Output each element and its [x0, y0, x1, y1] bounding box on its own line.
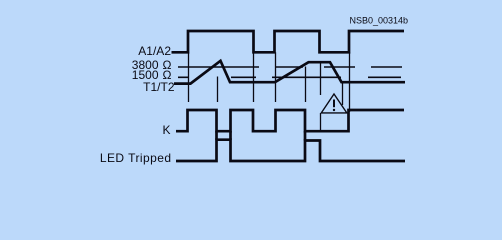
marker at x217 (1500 crossing, K fall 1): [217, 77, 219, 103]
marker at x188 (A1/A2 rise 1): [188, 52, 190, 102]
waveform T1/T2: [174, 61, 405, 84]
marker at x342 (T1/T2 fall bottom): [342, 82, 344, 105]
warning triangle exclamation: [333, 100, 335, 108]
svg-text:LED Tripped: LED Tripped: [100, 151, 172, 165]
connector K to LED at x305: [304, 131, 307, 140]
reference line 1500 ohm level: [178, 76, 401, 78]
marker at x253 (A1/A2 fall 1): [253, 52, 255, 102]
marker at x320 lower (triangle to K low): [320, 113, 322, 132]
marker at x349 (A1/A2 rise 3, K rise 4): [349, 52, 351, 112]
marker at x275 (A1/A2 rise 2): [275, 52, 277, 102]
waveform K: [176, 110, 404, 131]
svg-text:K: K: [162, 123, 170, 137]
svg-text:T1/T2: T1/T2: [143, 80, 175, 94]
waveform LED Tripped: [176, 140, 405, 161]
warning triangle: [321, 94, 347, 113]
connector K to LED at x216.5: [215, 131, 218, 140]
reference line 3800 ohm level: [178, 66, 402, 68]
svg-text:A1/A2: A1/A2: [138, 44, 171, 58]
marker at x320 upper (plateau to triangle): [320, 62, 322, 95]
svg-text:NSB0_00314b: NSB0_00314b: [350, 16, 409, 26]
waveform A1/A2: [172, 31, 405, 52]
connector K to LED at x230.5: [229, 131, 232, 140]
marker at x305 (3800 crossing, K fall 3): [305, 67, 307, 103]
